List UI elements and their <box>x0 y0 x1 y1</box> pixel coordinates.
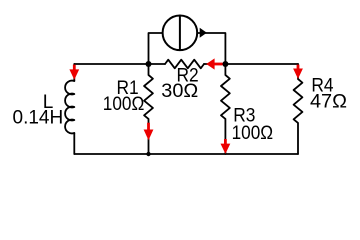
svg-text:47Ω: 47Ω <box>310 91 347 112</box>
current arrow L (down) <box>73 65 76 70</box>
current arrow R4 (down) <box>297 65 300 69</box>
current arrow R3 (down) <box>224 139 227 144</box>
resistor R4 <box>294 64 303 154</box>
current source direction arrowhead <box>200 28 207 38</box>
svg-text:100Ω: 100Ω <box>232 123 274 144</box>
resistor R3 <box>221 64 230 154</box>
current arrow R1 (down) <box>147 123 150 130</box>
node A (R1 top junction) <box>146 61 152 67</box>
wire bottom bus <box>74 153 298 155</box>
node B (R3 top junction) <box>222 61 228 67</box>
current arrow R2 (left) <box>214 63 222 66</box>
resistor R1 <box>144 64 153 154</box>
wire top bus right segment <box>204 63 298 65</box>
node C (R1 bottom junction) <box>146 152 150 156</box>
resistor R2 <box>165 60 204 69</box>
wire current-source loop left <box>149 33 163 64</box>
svg-text:0.14H: 0.14H <box>13 107 64 128</box>
wire current-source loop right <box>197 33 225 64</box>
svg-text:30Ω: 30Ω <box>161 81 198 102</box>
inductor L coil <box>65 81 74 134</box>
inductor L1 leads <box>73 64 75 81</box>
wire top bus left segment <box>74 63 165 65</box>
current source I1 <box>163 16 198 51</box>
svg-text:100Ω: 100Ω <box>103 94 145 115</box>
